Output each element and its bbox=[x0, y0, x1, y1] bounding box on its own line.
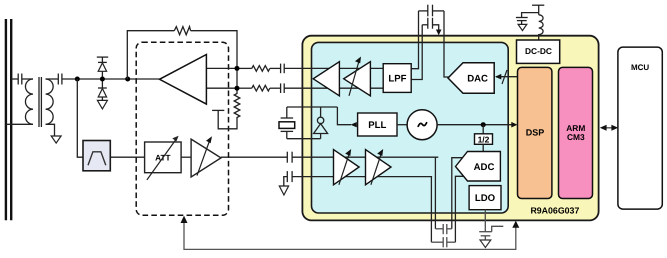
svg-text:PLL: PLL bbox=[368, 120, 386, 131]
svg-text:LPF: LPF bbox=[388, 74, 406, 85]
svg-text:ADC: ADC bbox=[474, 162, 495, 173]
svg-text:R9A06G037: R9A06G037 bbox=[530, 206, 579, 216]
svg-text:LDO: LDO bbox=[475, 193, 496, 204]
svg-text:DAC: DAC bbox=[467, 74, 488, 85]
svg-text:1/2: 1/2 bbox=[478, 134, 490, 144]
svg-text:CM3: CM3 bbox=[567, 132, 585, 142]
svg-text:MCU: MCU bbox=[631, 63, 649, 72]
svg-text:DC-DC: DC-DC bbox=[525, 46, 552, 56]
svg-text:DSP: DSP bbox=[526, 128, 545, 138]
